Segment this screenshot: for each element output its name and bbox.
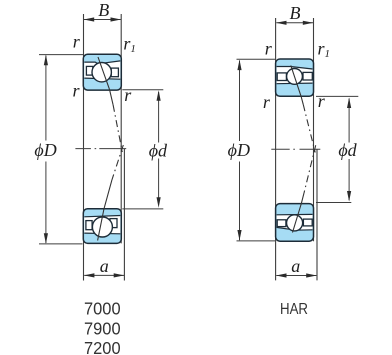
- wire right face line: [313, 18, 315, 241]
- dimension phid: [316, 95, 358, 97]
- wire load-center line: [123, 149, 125, 281]
- bearing lower section (rings cross-section): [83, 209, 121, 244]
- svg-text:ϕD: ϕD: [228, 140, 250, 160]
- contact line lower: [112, 145, 123, 180]
- contact line lower: [304, 145, 316, 193]
- inner ring shoulder edge: [84, 216, 120, 217]
- dimension phiD: [237, 58, 276, 60]
- svg-text:ϕD: ϕD: [34, 140, 56, 160]
- axis centerline: [271, 148, 320, 150]
- contact line upper: [291, 65, 303, 104]
- wire left face line: [83, 14, 85, 281]
- svg-text:r: r: [263, 92, 271, 112]
- ball: [287, 215, 303, 231]
- cage pocket left: [277, 73, 286, 81]
- contact line upper: [98, 57, 113, 105]
- dimension phiD: [39, 54, 83, 56]
- dimension B: [276, 22, 313, 24]
- dimension a: [276, 275, 316, 277]
- raceway band: [277, 214, 313, 230]
- outer ring bore edge: [84, 61, 120, 64]
- dimension B: [84, 19, 121, 21]
- svg-text:ϕd: ϕd: [149, 141, 168, 161]
- cage pocket left: [86, 221, 92, 230]
- ball: [92, 62, 111, 81]
- svg-text:7200: 7200: [84, 338, 121, 355]
- dimension a: [84, 274, 124, 276]
- svg-text:r: r: [72, 80, 80, 100]
- raceway band: [84, 61, 120, 79]
- cage pocket right: [303, 72, 312, 80]
- outer ring bore edge: [84, 232, 120, 235]
- wire right face line: [120, 14, 122, 243]
- raceway band: [84, 216, 120, 234]
- svg-text:B: B: [98, 0, 109, 20]
- wire left face line: [275, 18, 277, 280]
- bearing lower section (rings cross-section): [276, 204, 314, 242]
- inner ring shoulder edge: [277, 213, 313, 215]
- ball: [287, 69, 303, 85]
- wire load-center line: [316, 149, 318, 280]
- outer ring bore edge: [277, 67, 313, 70]
- svg-text:HAR: HAR: [280, 301, 308, 318]
- inner ring shoulder edge: [277, 82, 313, 85]
- svg-text:r: r: [265, 39, 273, 59]
- dimension phid: [122, 89, 163, 91]
- cage pocket right: [111, 68, 118, 77]
- inner ring shoulder edge: [84, 78, 120, 79]
- cage pocket right: [303, 219, 312, 226]
- axis centerline: [75, 148, 126, 150]
- cage pocket left: [86, 66, 92, 75]
- bearing upper section (rings cross-section): [276, 59, 314, 96]
- raceway band: [277, 67, 313, 84]
- svg-text:7000: 7000: [84, 299, 121, 319]
- svg-text:7900: 7900: [84, 318, 121, 338]
- svg-text:ϕd: ϕd: [338, 140, 357, 160]
- svg-text:r: r: [318, 91, 326, 111]
- cage pocket left: [277, 220, 286, 227]
- svg-text:a: a: [291, 256, 300, 276]
- bearing upper section (rings cross-section): [83, 54, 121, 90]
- outer ring bore edge: [277, 227, 313, 230]
- ball: [92, 217, 112, 237]
- svg-text:r: r: [124, 85, 132, 105]
- cage pocket right: [110, 219, 117, 228]
- svg-text:r: r: [73, 32, 81, 52]
- svg-text:B: B: [290, 3, 301, 23]
- svg-text:a: a: [100, 256, 109, 276]
